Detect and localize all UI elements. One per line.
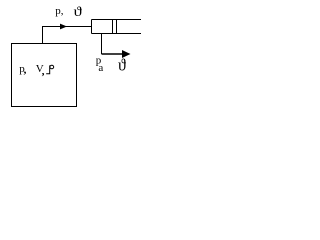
inlet arrowhead xyxy=(60,24,67,30)
svg-text:p,: p, xyxy=(55,5,64,17)
outlet arrowhead xyxy=(122,50,131,58)
outlet horizontal line xyxy=(102,53,124,55)
cylinder top wall xyxy=(92,19,142,21)
piston line 2 xyxy=(116,20,118,34)
svg-text:ϑ: ϑ xyxy=(74,4,83,19)
cylinder left wall xyxy=(91,20,93,34)
outlet pipe down xyxy=(101,34,103,55)
vessel label glyph (p-like symbol) xyxy=(46,65,53,74)
wire riser from box top xyxy=(42,27,44,44)
svg-text:,: , xyxy=(42,65,45,77)
svg-text:a: a xyxy=(98,62,103,74)
svg-text:,: , xyxy=(24,64,27,76)
piston line 1 xyxy=(112,20,114,34)
wire inlet horizontal xyxy=(42,26,92,28)
vessel box xyxy=(12,44,77,107)
svg-text:ϑ: ϑ xyxy=(118,55,127,75)
cylinder bottom wall xyxy=(92,33,142,35)
